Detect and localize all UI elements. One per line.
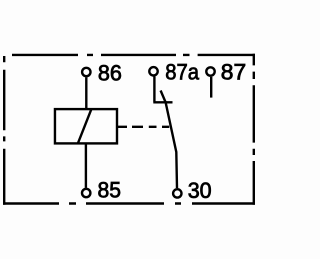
coil diagonal stroke: [78, 110, 91, 144]
actuator linkage (dashed) coil to blade: [117, 126, 169, 128]
relay housing outline top edge (dash-dot): [12, 54, 255, 56]
svg-text:87a: 87a: [165, 60, 199, 85]
terminal 85 circle: [82, 189, 90, 197]
wire 87a fixed contact: [153, 76, 172, 102]
svg-text:87: 87: [221, 60, 246, 85]
terminal 87 circle: [206, 67, 214, 75]
svg-text:30: 30: [188, 178, 212, 203]
relay housing outline right edge (dash-dot): [253, 54, 255, 205]
wire coil to 85: [85, 143, 87, 188]
relay housing outline left edge (dash-dot): [3, 56, 5, 205]
svg-text:85: 85: [98, 177, 122, 202]
terminal 30 circle: [173, 189, 181, 197]
wire 86 to coil: [85, 77, 87, 110]
relay housing outline bottom edge (dash-dot): [3, 202, 255, 204]
wire 87 stub: [210, 77, 212, 98]
relay coil K1: [55, 109, 117, 143]
terminal 86 circle: [82, 68, 90, 76]
svg-text:86: 86: [98, 60, 122, 85]
terminal 87a circle: [149, 67, 157, 75]
switch blade from 30: [161, 91, 177, 189]
